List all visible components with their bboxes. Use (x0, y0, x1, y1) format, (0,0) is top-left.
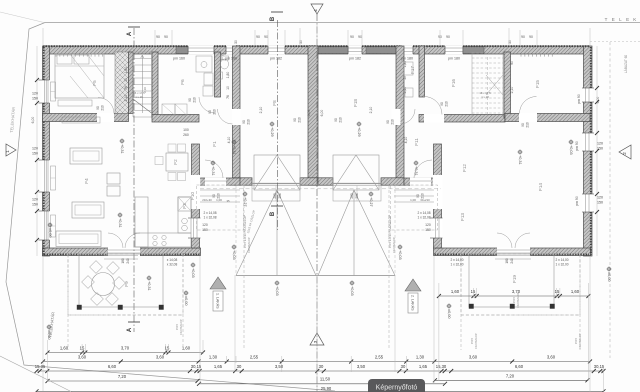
svg-text:11,50: 11,50 (320, 376, 331, 381)
svg-text:76: 76 (124, 86, 128, 90)
svg-text:F15: F15 (535, 80, 540, 88)
svg-text:6,60: 6,60 (515, 364, 524, 369)
svg-text:F17: F17 (410, 66, 415, 74)
svg-text:120: 120 (425, 223, 431, 227)
svg-text:1 x 32,00: 1 x 32,00 (450, 263, 463, 267)
svg-text:2,10: 2,10 (369, 107, 373, 114)
svg-text:280: 280 (350, 193, 354, 199)
svg-text:+0,03: +0,03 (350, 286, 354, 296)
svg-text:2,10: 2,10 (143, 87, 147, 93)
svg-text:1,65: 1,65 (214, 364, 223, 369)
svg-text:3,60: 3,60 (547, 355, 556, 360)
svg-text:1,00: 1,00 (216, 198, 222, 202)
svg-text:180: 180 (121, 258, 125, 264)
svg-text:6,00: 6,00 (320, 110, 324, 117)
svg-text:Képernyőfotó: Képernyőfotó (376, 384, 418, 391)
svg-text:3,50: 3,50 (357, 364, 366, 369)
svg-text:10: 10 (124, 78, 128, 82)
svg-text:3,60: 3,60 (156, 355, 165, 360)
svg-text:±0,00: ±0,00 (184, 296, 188, 305)
svg-text:15,30: 15,30 (436, 364, 447, 369)
svg-text:+0,31: +0,31 (232, 145, 236, 155)
svg-text:2 x 14,08: 2 x 14,08 (203, 211, 216, 215)
svg-text:90: 90 (293, 118, 297, 122)
svg-text:FA OSZLOP: FA OSZLOP (247, 237, 251, 253)
svg-text:+0,03: +0,03 (398, 250, 402, 260)
svg-text:+0,03: +0,03 (569, 145, 573, 155)
svg-text:+0,31: +0,31 (147, 281, 151, 291)
svg-text:210: 210 (247, 119, 251, 125)
svg-text:2,55: 2,55 (250, 355, 259, 360)
svg-text:3,60: 3,60 (469, 355, 478, 360)
svg-text:+0,27: +0,27 (243, 197, 247, 207)
svg-text:30: 30 (234, 40, 238, 44)
svg-text:±0,00: ±0,00 (607, 272, 611, 281)
svg-text:7,20: 7,20 (118, 374, 127, 379)
svg-text:1,80: 1,80 (124, 67, 128, 74)
svg-text:90: 90 (96, 106, 100, 110)
svg-text:15/15 FA OSZLOP: 15/15 FA OSZLOP (388, 215, 392, 241)
svg-text:F18: F18 (353, 99, 358, 107)
svg-text:210: 210 (445, 101, 449, 107)
svg-text:+0,03: +0,03 (232, 250, 236, 260)
svg-text:90: 90 (208, 110, 212, 114)
svg-text:210: 210 (101, 105, 105, 111)
svg-text:280: 280 (273, 193, 277, 199)
svg-text:4,10: 4,10 (227, 137, 231, 144)
svg-text:90: 90 (358, 35, 362, 39)
svg-text:30,15: 30,15 (191, 364, 202, 369)
svg-text:K: K (633, 17, 636, 22)
svg-text:15: 15 (80, 346, 85, 351)
svg-text:15: 15 (555, 289, 560, 294)
svg-text:90: 90 (242, 120, 246, 124)
svg-text:10: 10 (226, 86, 230, 90)
svg-text:F5: F5 (92, 80, 97, 86)
svg-text:90: 90 (440, 102, 444, 106)
svg-text:210: 210 (298, 117, 302, 123)
svg-text:pm 180: pm 180 (401, 57, 413, 61)
svg-text:F4: F4 (84, 178, 89, 184)
svg-text:1 x 28: 1 x 28 (481, 95, 489, 99)
svg-text:150: 150 (425, 228, 431, 232)
svg-text:F16: F16 (451, 79, 456, 87)
svg-text:6,60: 6,60 (108, 364, 117, 369)
svg-text:B: B (270, 211, 276, 216)
svg-text:E: E (626, 17, 629, 22)
svg-text:+0,31: +0,31 (120, 144, 124, 154)
svg-text:+0,31: +0,31 (518, 155, 522, 165)
svg-text:90: 90 (334, 118, 338, 122)
svg-text:1 x 32,08: 1 x 32,08 (203, 216, 216, 220)
svg-text:90: 90 (386, 120, 390, 124)
svg-text:1 x 28: 1 x 28 (135, 95, 143, 99)
svg-text:1,60: 1,60 (451, 289, 460, 294)
svg-text:2,10: 2,10 (124, 95, 128, 102)
svg-text:35: 35 (226, 199, 230, 203)
svg-text:210: 210 (339, 117, 343, 123)
svg-text:FA OSZLOP: FA OSZLOP (474, 333, 478, 349)
svg-text:+0,29: +0,29 (357, 127, 361, 137)
svg-text:F2: F2 (173, 159, 178, 165)
svg-text:30: 30 (237, 364, 242, 369)
svg-text:90: 90 (188, 98, 192, 102)
svg-text:240: 240 (126, 258, 130, 264)
svg-text:3,70: 3,70 (121, 346, 130, 351)
svg-text:30: 30 (319, 364, 324, 369)
svg-text:+0,27: +0,27 (369, 197, 373, 207)
svg-text:2 x 14,00: 2 x 14,00 (450, 258, 463, 262)
svg-text:A: A (127, 31, 133, 36)
svg-text:±0,00: ±0,00 (447, 309, 451, 318)
svg-text:120: 120 (202, 223, 208, 227)
svg-text:A: A (127, 327, 133, 332)
svg-text:30+210: 30+210 (420, 198, 430, 202)
svg-text:F12: F12 (462, 164, 467, 172)
svg-text:F10: F10 (190, 192, 195, 200)
svg-text:pm 182: pm 182 (349, 57, 361, 61)
svg-text:210: 210 (526, 122, 530, 128)
svg-text:3,70: 3,70 (512, 289, 521, 294)
svg-text:T: T (605, 17, 608, 22)
svg-text:FA OSZLOP: FA OSZLOP (179, 319, 183, 335)
svg-text:F8: F8 (272, 100, 277, 106)
svg-text:30,15: 30,15 (594, 364, 605, 369)
svg-text:7,20: 7,20 (506, 373, 515, 378)
svg-text:30: 30 (299, 40, 303, 44)
svg-text:pm 90: pm 90 (575, 196, 579, 206)
svg-text:90: 90 (510, 61, 514, 65)
svg-text:76: 76 (226, 95, 230, 99)
svg-text:+0,29: +0,29 (270, 127, 274, 137)
svg-text:+0,03: +0,03 (275, 286, 279, 296)
svg-text:3,50: 3,50 (275, 364, 284, 369)
svg-text:6,00: 6,00 (31, 117, 35, 124)
svg-text:1,30: 1,30 (416, 355, 425, 360)
svg-text:90: 90 (521, 123, 525, 127)
svg-text:+0,31: +0,31 (414, 166, 418, 176)
svg-text:F13: F13 (460, 213, 465, 221)
svg-text:F11: F11 (414, 138, 419, 146)
svg-text:90: 90 (164, 35, 168, 39)
svg-text:2,55: 2,55 (375, 355, 384, 360)
svg-text:F1: F1 (212, 141, 217, 147)
svg-text:pm 180: pm 180 (448, 57, 460, 61)
svg-text:F14: F14 (538, 183, 543, 191)
svg-text:pm 90: pm 90 (575, 141, 579, 151)
svg-text:210: 210 (193, 97, 197, 103)
svg-text:FA OSZLOP: FA OSZLOP (392, 237, 396, 253)
svg-text:3,60: 3,60 (78, 355, 87, 360)
svg-text:B: B (270, 16, 276, 21)
svg-text:1 x 32,00: 1 x 32,00 (555, 263, 568, 267)
svg-text:±0,00: ±0,00 (47, 330, 51, 339)
svg-text:pm 182: pm 182 (270, 57, 282, 61)
svg-text:120: 120 (597, 142, 603, 146)
svg-text:6,00: 6,00 (307, 110, 311, 117)
svg-text:1 x 32,08: 1 x 32,08 (417, 216, 430, 220)
svg-text:90: 90 (156, 35, 160, 39)
svg-text:30: 30 (401, 364, 406, 369)
svg-text:+0,31: +0,31 (211, 166, 215, 176)
svg-text:90: 90 (446, 35, 450, 39)
svg-text:F6: F6 (180, 79, 185, 85)
svg-text:180: 180 (505, 258, 509, 264)
svg-text:1,80: 1,80 (403, 61, 407, 68)
svg-text:286: 286 (355, 193, 359, 199)
svg-text:2,10: 2,10 (259, 107, 263, 114)
svg-text:F9: F9 (124, 281, 129, 287)
svg-text:150: 150 (202, 228, 208, 232)
svg-text:pm 180: pm 180 (225, 57, 237, 61)
svg-text:2 x 14,00: 2 x 14,00 (555, 258, 568, 262)
svg-text:210: 210 (213, 109, 217, 115)
svg-text:4,10: 4,10 (404, 137, 408, 144)
svg-text:30: 30 (508, 40, 512, 44)
svg-text:x 32,08: x 32,08 (167, 263, 178, 267)
svg-text:LÁBAZAT 60: LÁBAZAT 60 (624, 55, 628, 74)
svg-text:2. LAKÁS: 2. LAKÁS (411, 295, 415, 311)
svg-text:1,80: 1,80 (226, 72, 230, 79)
svg-text:10: 10 (403, 76, 407, 80)
svg-text:90: 90 (529, 35, 533, 39)
svg-text:90: 90 (256, 35, 260, 39)
svg-text:2 x 14,08: 2 x 14,08 (417, 211, 430, 215)
svg-text:1,60: 1,60 (571, 289, 580, 294)
svg-text:FA OSZLOP: FA OSZLOP (516, 292, 520, 308)
svg-text:±0,00: ±0,00 (48, 228, 52, 237)
svg-text:120: 120 (597, 196, 603, 200)
svg-text:90: 90 (350, 35, 354, 39)
svg-text:pm 90: pm 90 (577, 94, 581, 104)
svg-text:+0,03: +0,03 (191, 268, 195, 278)
svg-text:90: 90 (521, 35, 525, 39)
svg-text:pm 160: pm 160 (173, 57, 185, 61)
svg-text:1. LAKÁS: 1. LAKÁS (216, 293, 220, 309)
svg-text:1,00: 1,00 (410, 198, 416, 202)
svg-text:25,90: 25,90 (321, 386, 332, 391)
svg-text:1,60: 1,60 (60, 346, 69, 351)
svg-text:260: 260 (183, 133, 189, 137)
svg-text:210+30: 210+30 (202, 198, 212, 202)
svg-text:210: 210 (391, 119, 395, 125)
svg-text:1,30: 1,30 (209, 355, 218, 360)
svg-text:15,35: 15,35 (35, 364, 46, 369)
svg-text:90: 90 (264, 35, 268, 39)
svg-text:1,65: 1,65 (419, 364, 428, 369)
svg-text:F3: F3 (182, 203, 187, 209)
svg-text:2,10: 2,10 (510, 87, 514, 94)
svg-text:286: 286 (278, 193, 282, 199)
svg-text:150: 150 (597, 201, 603, 205)
svg-text:100: 100 (183, 128, 189, 132)
svg-text:E: E (612, 17, 615, 22)
svg-text:F19: F19 (512, 275, 517, 283)
svg-text:+0,31: +0,31 (118, 218, 122, 228)
svg-text:240: 240 (510, 258, 514, 264)
svg-text:x 14,08: x 14,08 (167, 258, 178, 262)
